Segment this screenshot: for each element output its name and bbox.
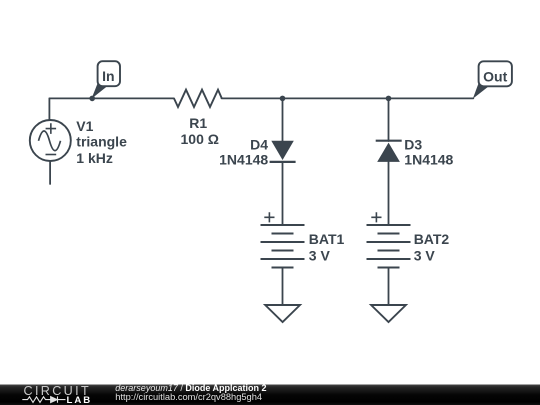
svg-text:V1: V1 xyxy=(76,118,93,134)
wire V1 bottom stub xyxy=(49,162,51,185)
logo resistor-diode glyph xyxy=(22,396,65,402)
footer bar xyxy=(0,385,540,405)
ground (left) xyxy=(265,305,300,322)
resistor R1 xyxy=(174,90,222,107)
wire D4 cathode to BAT1 xyxy=(282,162,284,225)
wire D3 cathode xyxy=(388,98,390,141)
diode D4 xyxy=(270,141,296,162)
svg-text:D4: D4 xyxy=(250,137,268,153)
svg-text:http://circuitlab.com/cr2qv88h: http://circuitlab.com/cr2qv88hg5gh4 xyxy=(115,392,262,402)
diode D3 xyxy=(376,141,402,162)
flag In xyxy=(92,61,121,99)
source V1 xyxy=(30,120,71,161)
svg-text:3 V: 3 V xyxy=(309,247,331,263)
svg-text:3 V: 3 V xyxy=(414,247,436,263)
node D3 junction xyxy=(386,96,392,102)
svg-text:D3: D3 xyxy=(404,137,422,153)
flag Out xyxy=(473,61,512,99)
svg-text:Out: Out xyxy=(483,68,507,84)
svg-text:1N4148: 1N4148 xyxy=(219,152,268,168)
battery BAT2 xyxy=(367,212,411,267)
svg-text:BAT1: BAT1 xyxy=(309,231,345,247)
node In junction xyxy=(89,96,95,102)
wire main horizontal left xyxy=(49,97,174,99)
svg-text:100 Ω: 100 Ω xyxy=(181,131,219,147)
node D4 junction xyxy=(280,96,286,102)
svg-text:1 kHz: 1 kHz xyxy=(76,150,113,166)
svg-text:BAT2: BAT2 xyxy=(414,231,450,247)
wire D4 anode xyxy=(282,98,284,141)
wire V1 top xyxy=(48,98,50,120)
wire BAT1 to ground xyxy=(282,268,284,306)
wire D3 anode to BAT2 xyxy=(388,162,390,225)
svg-text:In: In xyxy=(102,68,114,84)
wire main horizontal right xyxy=(222,97,474,99)
svg-text:triangle: triangle xyxy=(76,134,127,150)
battery BAT1 xyxy=(261,212,305,267)
wire BAT2 to ground xyxy=(388,268,390,306)
svg-text:LAB: LAB xyxy=(67,395,93,405)
ground (right) xyxy=(371,305,406,322)
svg-text:R1: R1 xyxy=(189,115,207,131)
svg-text:1N4148: 1N4148 xyxy=(404,152,453,168)
